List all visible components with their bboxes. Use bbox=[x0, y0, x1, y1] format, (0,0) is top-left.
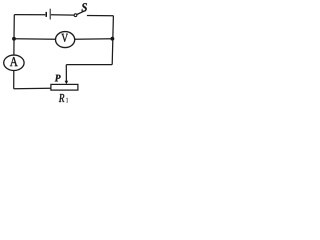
wire: top-left corner to battery bbox=[14, 14, 45, 16]
wire: switch to top-right corner bbox=[87, 15, 114, 17]
voltmeter V letter bbox=[61, 34, 68, 42]
wire: ammeter to bottom-left corner bbox=[13, 70, 15, 88]
label R1 bbox=[59, 94, 65, 102]
ammeter A body bbox=[4, 55, 24, 70]
wire: battery to switch pivot bbox=[51, 14, 74, 16]
switch S pivot circle bbox=[74, 14, 77, 17]
wire: voltmeter branch left bbox=[14, 38, 56, 41]
battery cell negative plate (short thick) bbox=[46, 12, 48, 17]
wire: left side vertical bbox=[13, 15, 15, 56]
label R1 subscript bbox=[66, 98, 68, 102]
wire: slider feed horizontal bbox=[66, 64, 112, 66]
battery cell positive plate (long thin) bbox=[50, 9, 51, 20]
label S bbox=[82, 3, 87, 11]
ammeter A letter bbox=[10, 57, 18, 66]
rheostat slider arrowhead bbox=[65, 81, 69, 85]
wire: right side vertical bbox=[112, 16, 113, 65]
switch S blade (open) bbox=[77, 10, 86, 14]
label P bbox=[55, 75, 61, 82]
wire: slider vertical bbox=[65, 65, 67, 82]
node: left junction dot bbox=[12, 37, 16, 41]
wire: voltmeter branch right bbox=[75, 38, 113, 41]
wire: bottom horizontal to rheostat bbox=[14, 87, 51, 90]
rheostat R1 body bbox=[51, 84, 78, 90]
voltmeter V body bbox=[56, 32, 75, 48]
node: right junction dot bbox=[111, 37, 115, 41]
